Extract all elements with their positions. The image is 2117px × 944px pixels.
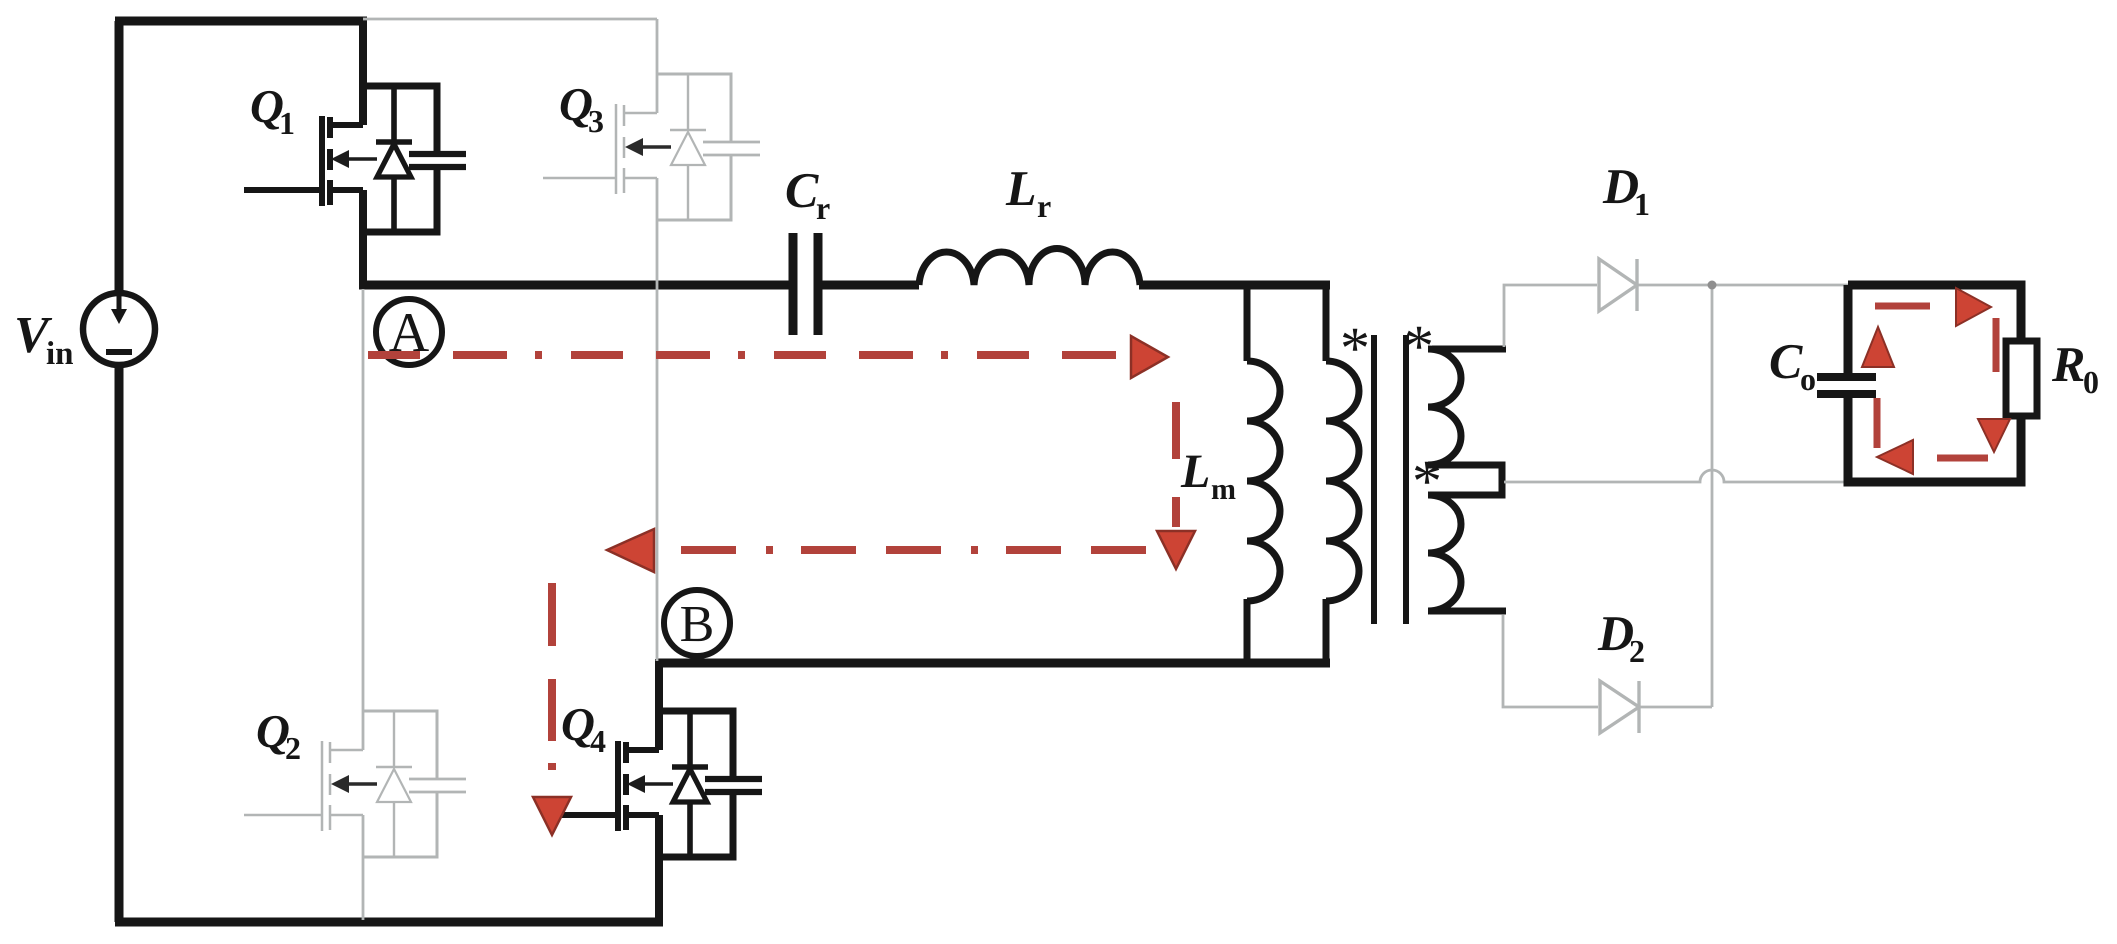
- label R0: [2051, 336, 2099, 400]
- svg-text:0: 0: [2083, 364, 2099, 400]
- label D2: [1597, 605, 1645, 669]
- wire Q1 source column segment down to node A rail: [359, 190, 367, 289]
- wire Q2 source column to bottom rail (gray): [362, 815, 365, 920]
- junction dot at D1 output: [1708, 281, 1717, 290]
- svg-text:C: C: [785, 162, 819, 218]
- svg-text:R: R: [2051, 336, 2085, 392]
- source Vin (input voltage source circle): [83, 293, 155, 365]
- label Vin: [14, 307, 74, 372]
- red circulation dash left: [1874, 398, 1881, 448]
- inductor Lm (magnetizing inductance): [1247, 361, 1280, 601]
- wire node B column to Q4 drain: [655, 659, 663, 750]
- label Lr: [1005, 160, 1051, 224]
- wire Q4 source column to bottom rail: [655, 815, 663, 926]
- wire bottom rail: [115, 918, 663, 927]
- label Q2: [256, 706, 301, 766]
- wire top rail gray segment (to Q3 column): [363, 18, 657, 21]
- wire Lm bottom branch: [1244, 599, 1251, 667]
- wire tank bottom rail (node B to transformer): [657, 659, 1330, 668]
- transformer primary winding: [1326, 361, 1359, 601]
- transformer secondary winding upper: [1428, 349, 1506, 495]
- transformer dot asterisk secondary middle: [1412, 448, 1442, 514]
- transformer secondary winding lower: [1428, 495, 1506, 611]
- red dash-dot current path from node A to Lm (arrow right): [368, 336, 1168, 378]
- svg-text:2: 2: [285, 730, 301, 766]
- wire Q3 drain column (gray): [656, 19, 659, 113]
- red circulation arrow right (top of output loop): [1956, 288, 1991, 326]
- wire secondary bottom terminal down to D2 (gray): [1503, 615, 1598, 707]
- wire D2 cathode to vertical (gray): [1639, 706, 1712, 709]
- wire primary winding bottom branch: [1323, 599, 1330, 667]
- red circulation arrow up (left of output loop): [1862, 327, 1894, 367]
- diode D1: [1599, 259, 1637, 311]
- svg-text:*: *: [1412, 448, 1442, 514]
- svg-text:3: 3: [588, 103, 604, 139]
- svg-text:*: *: [1404, 313, 1434, 379]
- resistor R0 (load resistor box): [2006, 341, 2037, 416]
- red circulation dash top: [1875, 303, 1930, 310]
- diode D2: [1600, 681, 1639, 733]
- wire Q3 source column down to node B (gray): [656, 178, 659, 661]
- transistor Q4 (MOSFET with body diode and parallel capacitor): [559, 711, 762, 857]
- red dash-dot return current path (arrow left): [607, 529, 1146, 572]
- wire left rail bottom (Vin- down to bottom rail): [115, 365, 124, 922]
- wire D1 cathode to output junction (gray): [1637, 284, 1848, 287]
- wire Cr to Lr: [822, 281, 919, 290]
- label Q1: [250, 81, 295, 141]
- label Lm: [1180, 445, 1236, 506]
- wire Q1 drain column segment: [359, 17, 367, 125]
- wire Q2 drain column (gray, node A down to Q2): [362, 289, 365, 750]
- red circulation dash bottom: [1937, 455, 1988, 462]
- label D1: [1602, 158, 1650, 222]
- svg-text:4: 4: [590, 723, 606, 759]
- wire secondary top terminal to D1 (gray): [1504, 285, 1597, 347]
- capacitor Cr (resonant capacitor): [793, 233, 818, 335]
- red dashed vertical current path to Q4 gate (arrow down): [533, 583, 571, 835]
- transformer dot asterisk primary: [1340, 315, 1370, 381]
- label Cr: [785, 162, 830, 226]
- wire Lm top branch: [1244, 281, 1251, 361]
- red circulation arrow left (bottom of output loop): [1877, 440, 1913, 474]
- transformer dot asterisk secondary top: [1404, 313, 1434, 379]
- label Q3: [559, 79, 604, 139]
- svg-text:r: r: [816, 190, 830, 226]
- wire center tap to output (gray, hops over vertical wire): [1504, 470, 1848, 482]
- node B (circle label): [664, 590, 730, 656]
- label Q4: [561, 699, 606, 759]
- transistor Q2 (MOSFET with body diode and parallel capacitor): [244, 711, 466, 857]
- wire left rail top (Vin+ to top rail to Q1 drain column): [115, 21, 367, 293]
- wire Lr to transformer primary top: [1139, 281, 1330, 290]
- svg-text:L: L: [1180, 445, 1210, 498]
- svg-text:o: o: [1800, 361, 1816, 397]
- svg-text:C: C: [1769, 333, 1803, 389]
- transistor Q1 (MOSFET with body diode and parallel capacitor): [244, 86, 466, 232]
- wire rectifier output vertical (D1 junction down to D2, gray): [1711, 285, 1714, 707]
- capacitor Co (output capacitor plates): [1817, 377, 1876, 394]
- svg-text:B: B: [680, 596, 715, 653]
- wire output loop rectangle (black): [1848, 285, 2021, 482]
- wire node A rail (Q1 source to Cr): [359, 281, 789, 290]
- svg-text:1: 1: [279, 105, 295, 141]
- svg-text:in: in: [46, 336, 74, 372]
- transistor Q3 (MOSFET with body diode and parallel capacitor): [543, 74, 760, 220]
- transformer core lines: [1374, 335, 1406, 624]
- red dashed vertical current arrow along Lm (downward): [1157, 402, 1195, 569]
- svg-text:m: m: [1211, 473, 1236, 506]
- svg-text:*: *: [1340, 315, 1370, 381]
- wire primary winding top branch: [1323, 281, 1330, 361]
- red circulation dash right: [1993, 318, 2000, 372]
- svg-text:1: 1: [1634, 186, 1650, 222]
- svg-text:2: 2: [1629, 633, 1645, 669]
- svg-text:r: r: [1037, 188, 1051, 224]
- svg-text:L: L: [1005, 160, 1037, 216]
- red circulation arrow down (right of output loop): [1978, 419, 2010, 452]
- node A (circle label): [376, 299, 442, 365]
- label Co: [1769, 333, 1816, 397]
- inductor Lr (resonant inductor): [919, 248, 1140, 285]
